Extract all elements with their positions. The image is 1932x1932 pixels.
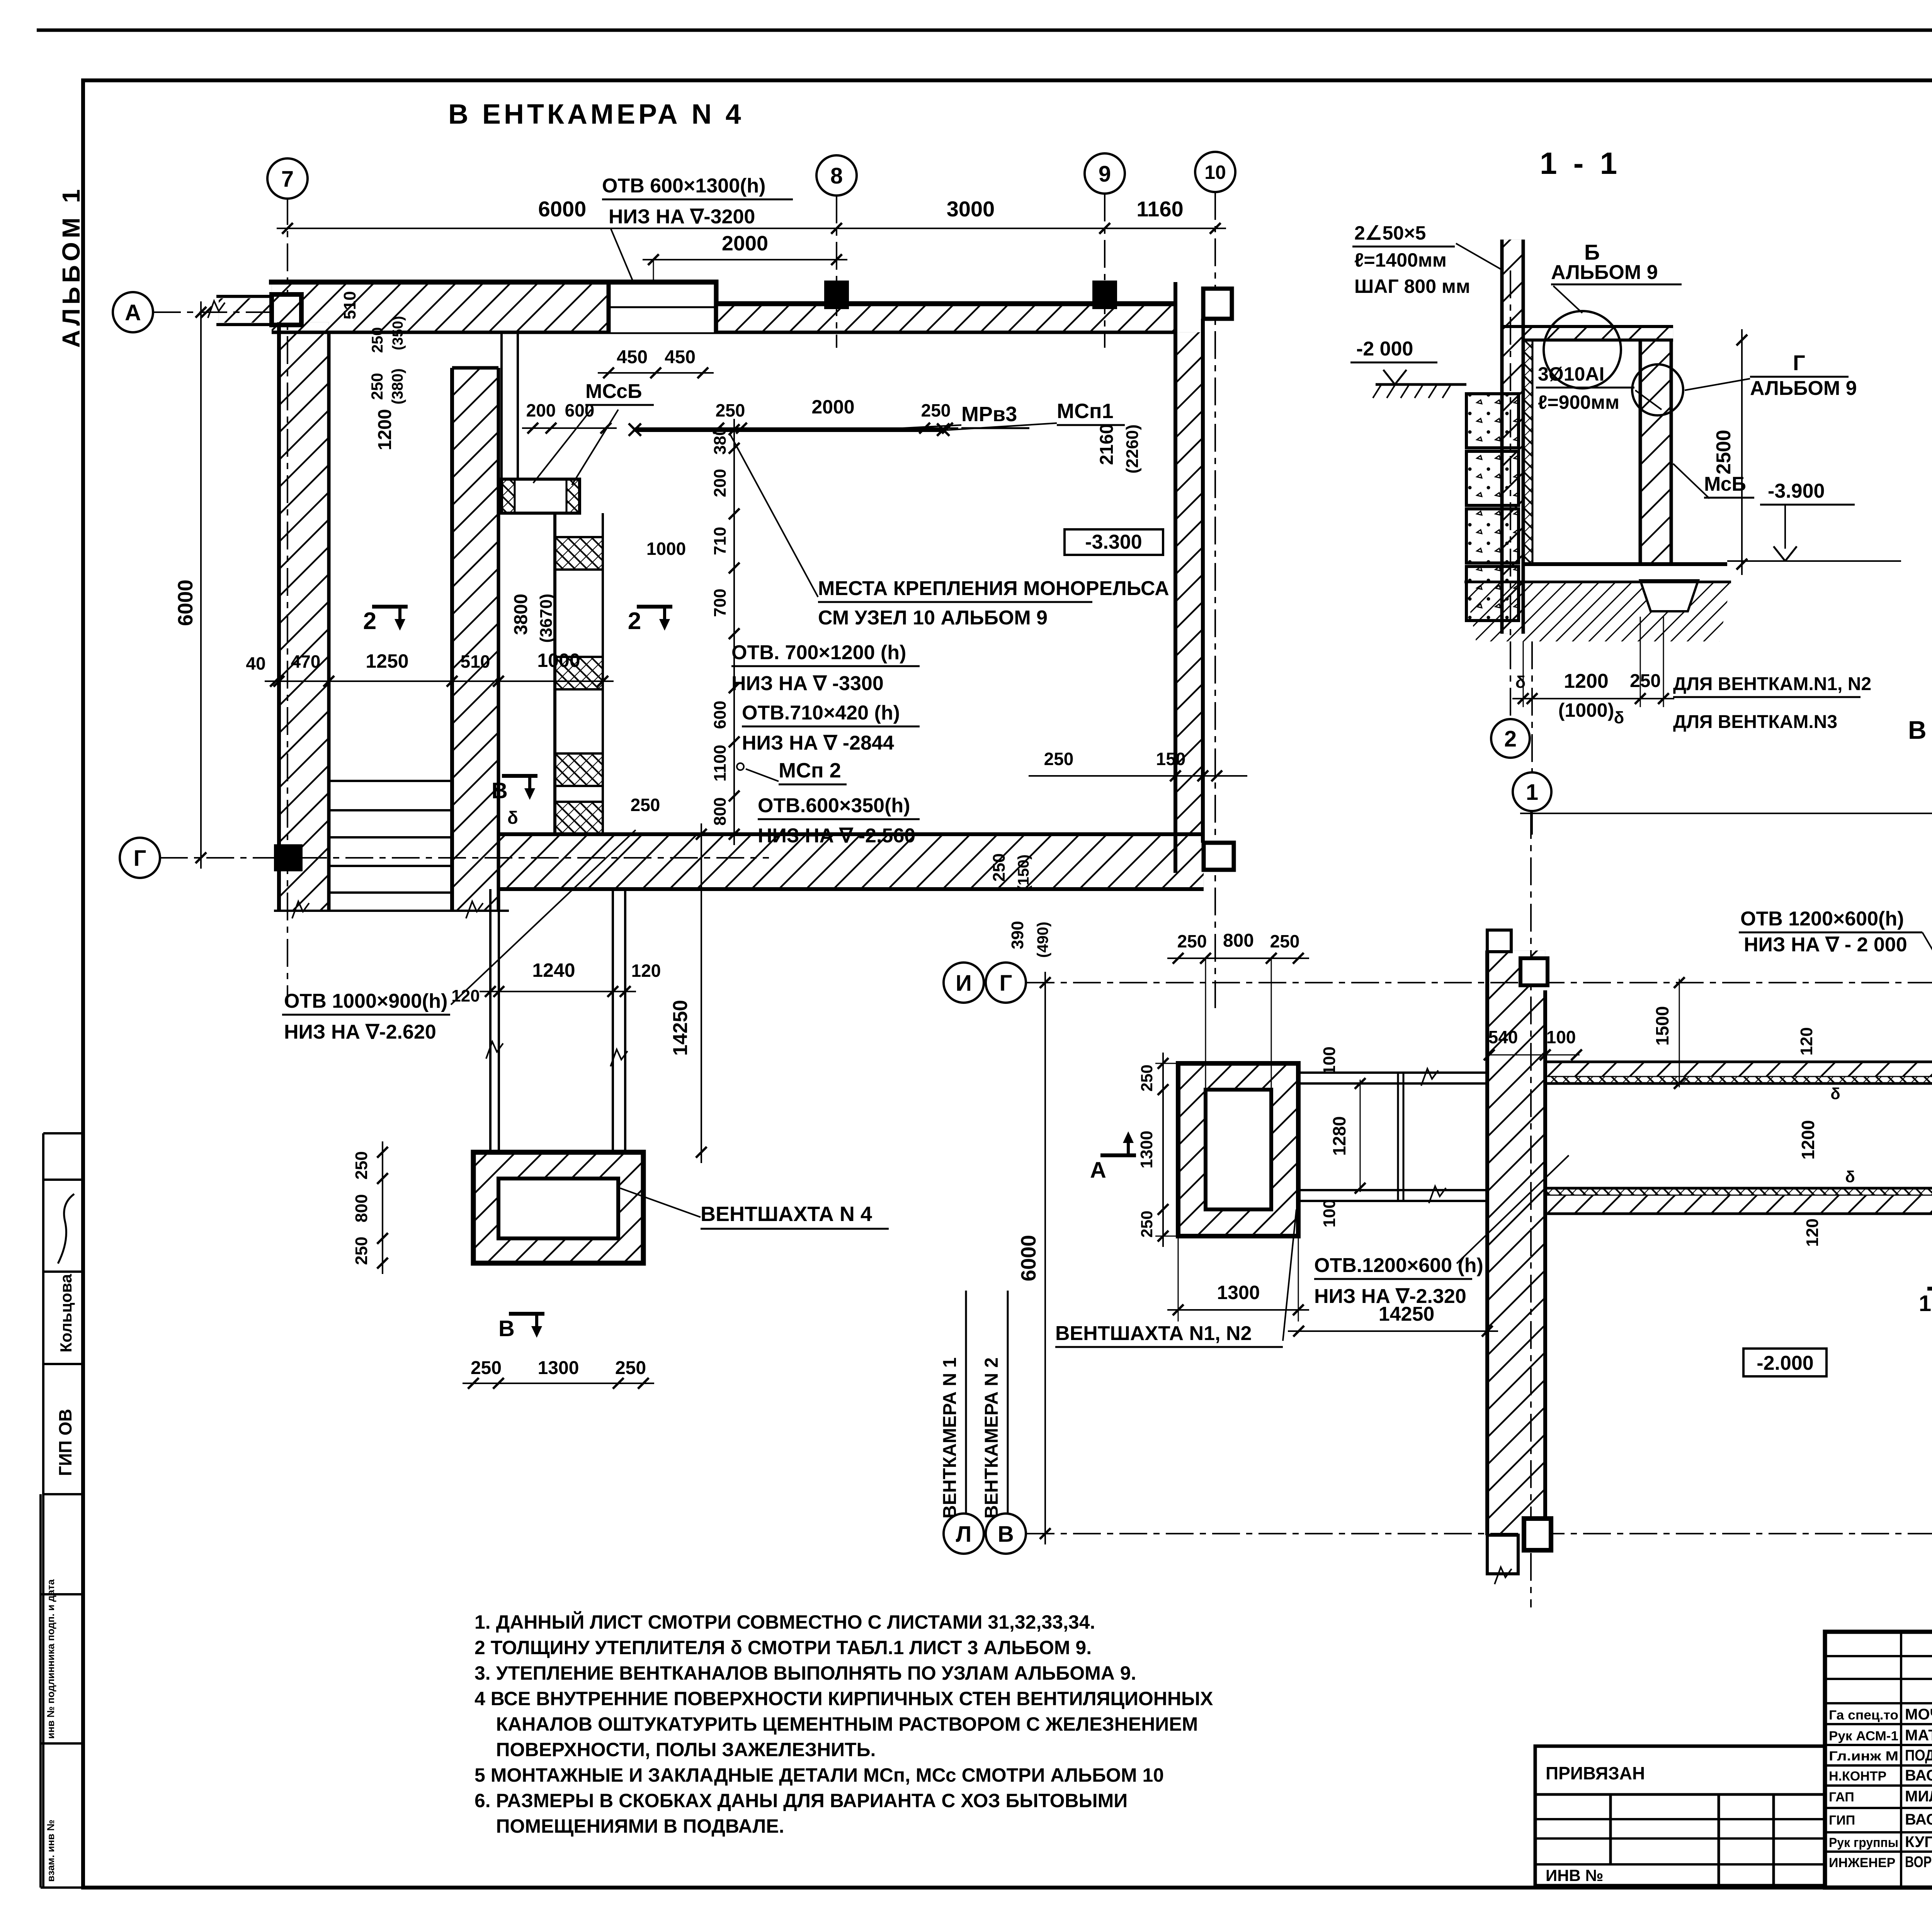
svg-text:-3.900: -3.900	[1768, 480, 1825, 502]
svg-text:700: 700	[711, 588, 730, 617]
bottom wall band of plan N4	[498, 834, 1204, 889]
stamp signature	[58, 1194, 74, 1264]
stub wall at axis 7 left	[216, 295, 274, 298]
svg-text:250: 250	[1138, 1065, 1156, 1092]
svg-text:ОТВ.600×350(h): ОТВ.600×350(h)	[758, 794, 910, 817]
sec1 ground hatch	[1464, 582, 1731, 641]
inner duct chamber near MSsB	[502, 479, 580, 513]
duct strip lower to chamber	[1545, 1195, 1932, 1214]
sec1 vertical dim 2500	[1741, 329, 1743, 575]
svg-text:ГИП: ГИП	[1829, 1813, 1855, 1828]
sec1 ceiling slab	[1523, 327, 1673, 340]
central wall top stub	[1487, 930, 1511, 952]
column at axis 9	[1092, 281, 1117, 309]
svg-text:НИЗ НА ∇ -3300: НИЗ НА ∇ -3300	[731, 672, 884, 695]
central wall	[1487, 951, 1545, 1535]
bubble G2	[986, 963, 1026, 1003]
svg-text:МЕСТА КРЕПЛЕНИЯ МОНОРЕЛЬСА: МЕСТА КРЕПЛЕНИЯ МОНОРЕЛЬСА	[818, 577, 1169, 600]
svg-text:510: 510	[340, 291, 359, 319]
sec1 foundation blocks	[1466, 394, 1519, 448]
svg-text:2: 2	[363, 608, 376, 634]
axis bubble 7	[267, 158, 308, 199]
svg-text:(380): (380)	[389, 368, 406, 404]
top dimension line 6000 3000 1160	[277, 228, 1226, 229]
svg-text:800: 800	[1223, 930, 1254, 951]
svg-text:МОЧАЛОВ: МОЧАЛОВ	[1905, 1706, 1932, 1723]
svg-text:470: 470	[291, 651, 321, 672]
stair inner wall	[452, 368, 498, 911]
svg-text:250: 250	[1270, 931, 1300, 951]
sec1 axis dash lines	[1510, 270, 1511, 719]
dim 12000	[1520, 813, 1932, 814]
sec1 chamber left lining	[1523, 340, 1532, 564]
svg-text:ОТВ.1200×600 (h): ОТВ.1200×600 (h)	[1314, 1254, 1483, 1277]
svg-text:450: 450	[617, 347, 648, 367]
svg-text:δ: δ	[1515, 673, 1526, 692]
svg-text:В: В	[498, 1316, 515, 1341]
title block vertical dividers	[1900, 1632, 1902, 1888]
svg-text:4 ВСЕ ВНУТРЕННИЕ ПОВЕРХНОСТИ: 4 ВСЕ ВНУТРЕННИЕ ПОВЕРХНОСТИ КИРПИЧНЫХ С…	[474, 1688, 1213, 1709]
svg-text:ОТВ. 700×1200 (h): ОТВ. 700×1200 (h)	[731, 641, 906, 664]
svg-text:Г: Г	[134, 846, 146, 871]
title block left rows	[1825, 1655, 1932, 1657]
svg-text:120: 120	[1803, 1218, 1822, 1247]
sec1 building wall	[1502, 240, 1523, 634]
svg-text:КАНАЛОВ ОШТУКАТУРИТЬ ЦЕМЕНТНЫ: КАНАЛОВ ОШТУКАТУРИТЬ ЦЕМЕНТНЫМ РАСТВОРОМ…	[474, 1713, 1198, 1735]
svg-text:ДЛЯ ВЕНТКАМ.N3: ДЛЯ ВЕНТКАМ.N3	[1673, 712, 1837, 732]
stair outer wall	[279, 322, 329, 911]
axis L-V line	[1027, 1533, 1932, 1534]
svg-text:1200: 1200	[1798, 1120, 1818, 1160]
axis bubble 8	[816, 155, 857, 196]
svg-text:НИЗ НА ∇-2.620: НИЗ НА ∇-2.620	[284, 1021, 436, 1043]
sec1 bubble 1	[1513, 772, 1551, 811]
svg-text:250: 250	[990, 853, 1009, 881]
svg-text:МРв3: МРв3	[961, 403, 1017, 426]
vent shaft N4	[473, 1152, 643, 1263]
svg-text:АЛЬБОМ 1: АЛЬБОМ 1	[57, 185, 85, 348]
sec1 pit under chamber	[1640, 580, 1698, 611]
svg-text:250: 250	[352, 1151, 371, 1179]
svg-text:ℓ=1400мм: ℓ=1400мм	[1354, 249, 1447, 271]
svg-text:1000: 1000	[646, 539, 686, 559]
axis 10 line	[1214, 192, 1216, 1012]
dimension 450 450	[598, 372, 714, 374]
svg-text:ОТВ 1000×900(h): ОТВ 1000×900(h)	[284, 990, 447, 1012]
svg-text:800: 800	[352, 1194, 371, 1222]
svg-text:1300: 1300	[1137, 1131, 1156, 1168]
monorail fixing line	[635, 427, 943, 432]
svg-text:ВАСИНА: ВАСИНА	[1905, 1811, 1932, 1828]
svg-text:250: 250	[921, 400, 951, 420]
section mark 1 left	[1927, 1287, 1932, 1291]
shaft N4 left dims	[382, 1141, 383, 1274]
vent shaft N1 N2	[1178, 1063, 1298, 1236]
svg-text:380: 380	[711, 426, 730, 454]
axis 1 line	[1530, 811, 1532, 1607]
svg-text:(150): (150)	[1015, 854, 1032, 890]
left vertical dim 6000	[200, 301, 202, 869]
level box -3.300	[1065, 529, 1163, 555]
svg-text:2000: 2000	[722, 232, 768, 255]
section mark 2 upper	[372, 605, 408, 609]
column at axis 8	[824, 281, 849, 309]
svg-text:1240: 1240	[532, 959, 575, 981]
svg-text:МАТОЯН: МАТОЯН	[1905, 1727, 1932, 1744]
svg-text:600: 600	[711, 701, 730, 729]
svg-text:НИЗ НА ∇ -2.560: НИЗ НА ∇ -2.560	[758, 825, 915, 847]
svg-text:Кольцова: Кольцова	[57, 1274, 75, 1352]
svg-text:НИЗ НА ∇ -2844: НИЗ НА ∇ -2844	[742, 732, 894, 754]
svg-text:ШАГ 800 мм: ШАГ 800 мм	[1354, 276, 1470, 297]
duct strip upper to chamber	[1545, 1062, 1932, 1077]
labels rotated on ducts	[1679, 979, 1680, 1087]
svg-text:2500: 2500	[1713, 430, 1735, 474]
section mark 2 lower	[637, 605, 672, 609]
inner wall vertical with blocks	[553, 513, 556, 834]
svg-text:1300: 1300	[538, 1358, 579, 1378]
axis 9 line	[1104, 194, 1105, 348]
svg-text:Г: Г	[1793, 350, 1805, 375]
sheet top edge line	[37, 29, 1932, 32]
svg-text:14250: 14250	[669, 1000, 692, 1056]
svg-text:6000: 6000	[538, 197, 587, 221]
svg-text:δ: δ	[1845, 1168, 1855, 1186]
svg-text:-2 000: -2 000	[1356, 338, 1413, 360]
svg-text:ВОРОТНИКОВА: ВОРОТНИКОВА	[1905, 1854, 1932, 1871]
svg-text:СМ УЗЕЛ 10 АЛЬБОМ 9: СМ УЗЕЛ 10 АЛЬБОМ 9	[818, 607, 1048, 629]
dims 250 150 right wall	[1029, 775, 1247, 777]
inner vertical dim stack	[733, 419, 735, 845]
svg-text:510: 510	[461, 651, 490, 672]
axis bubble 10	[1195, 152, 1235, 192]
shaft left dims 250 1300 250	[1162, 1053, 1164, 1247]
bubble L	[944, 1514, 984, 1554]
opening 450x450 in top wall	[609, 282, 716, 332]
svg-text:390: 390	[1008, 921, 1027, 949]
svg-text:6. РАЗМЕРЫ В СКОБКАХ ДАНЫ Д: 6. РАЗМЕРЫ В СКОБКАХ ДАНЫ ДЛЯ ВАРИАНТА С…	[474, 1790, 1128, 1811]
svg-text:10: 10	[1204, 162, 1226, 183]
svg-text:1. ДАННЫЙ ЛИСТ СМОТРИ СОВМЕСТН: 1. ДАННЫЙ ЛИСТ СМОТРИ СОВМЕСТНО С ЛИСТАМ…	[474, 1611, 1095, 1633]
svg-text:1: 1	[1919, 1291, 1931, 1316]
opening jambs in duct	[1397, 1073, 1399, 1201]
svg-text:250: 250	[1177, 931, 1207, 951]
svg-text:δ: δ	[1830, 1085, 1840, 1103]
svg-text:ВЕНТШАХТА N1, N2: ВЕНТШАХТА N1, N2	[1055, 1322, 1252, 1345]
axis bubble A	[113, 292, 153, 332]
svg-text:(490): (490)	[1034, 922, 1051, 957]
svg-text:2: 2	[1504, 726, 1517, 752]
svg-text:-2.000: -2.000	[1757, 1352, 1813, 1374]
pier at axis1 top	[1520, 958, 1548, 985]
axis 7 line	[287, 197, 288, 1005]
sec1 chamber right wall	[1640, 340, 1671, 564]
leader otv1000	[451, 830, 636, 1005]
axis 8 line	[836, 196, 837, 348]
svg-text:инв № подлинника подп. и дата: инв № подлинника подп. и дата	[45, 1579, 56, 1739]
section mark B upper	[502, 774, 537, 778]
column 7/A	[272, 294, 301, 325]
svg-text:200: 200	[711, 469, 730, 497]
svg-text:1280: 1280	[1329, 1116, 1349, 1156]
sec1 callout circle B	[1544, 311, 1621, 388]
svg-text:3800: 3800	[511, 594, 531, 635]
svg-text:Рук группы: Рук группы	[1829, 1835, 1898, 1850]
svg-text:120: 120	[631, 961, 661, 981]
sec1 bottom dims	[1512, 698, 1674, 699]
svg-text:Б: Б	[1584, 240, 1600, 264]
svg-text:14250: 14250	[1379, 1303, 1435, 1325]
dimension 2000 to axis 8	[643, 259, 847, 260]
svg-text:250: 250	[716, 400, 745, 420]
svg-text:МСп 2: МСп 2	[779, 759, 841, 782]
dim 14250 bottom plan	[1288, 1330, 1498, 1332]
svg-text:ИНВ №: ИНВ №	[1546, 1866, 1603, 1884]
svg-text:ИНЖЕНЕР: ИНЖЕНЕР	[1829, 1855, 1895, 1870]
svg-text:ПРИВЯЗАН: ПРИВЯЗАН	[1546, 1763, 1645, 1783]
svg-text:250: 250	[1630, 671, 1661, 691]
svg-text:150: 150	[1156, 749, 1186, 769]
svg-text:(3670): (3670)	[537, 594, 556, 643]
svg-text:250: 250	[352, 1236, 371, 1265]
sec1 bubble 2	[1491, 719, 1530, 758]
svg-text:ПОМЕЩЕНИЯМИ В ПОДВАЛЕ.: ПОМЕЩЕНИЯМИ В ПОДВАЛЕ.	[474, 1815, 784, 1837]
svg-text:В: В	[492, 778, 508, 803]
svg-text:7: 7	[281, 167, 294, 192]
svg-text:Гл.инж М: Гл.инж М	[1829, 1749, 1898, 1764]
svg-text:2 ТОЛЩИНУ УТЕПЛИТЕЛЯ δ СМОТР: 2 ТОЛЩИНУ УТЕПЛИТЕЛЯ δ СМОТРИ ТАБЛ.1 ЛИС…	[474, 1637, 1092, 1658]
shaft bottom dim 1300	[1167, 1309, 1309, 1311]
svg-text:ОТВ 1200×600(h): ОТВ 1200×600(h)	[1740, 908, 1904, 930]
axis I-G line	[1027, 982, 1932, 983]
svg-text:ГАП: ГАП	[1829, 1790, 1854, 1804]
svg-text:Л: Л	[956, 1522, 972, 1547]
svg-text:(1000): (1000)	[1558, 699, 1614, 721]
dims 200 600	[522, 427, 617, 429]
column 7/G	[274, 844, 303, 871]
svg-text:1160: 1160	[1136, 197, 1184, 221]
svg-text:В ЕНТКАМЕРА N 4: В ЕНТКАМЕРА N 4	[448, 99, 744, 130]
duct lines to shaft N4	[489, 889, 492, 1152]
svg-text:2160: 2160	[1097, 424, 1117, 465]
svg-text:710: 710	[711, 527, 730, 555]
section mark B lower	[509, 1312, 544, 1316]
svg-text:1100: 1100	[711, 745, 730, 781]
svg-text:НИЗ НА ∇ - 2 000: НИЗ НА ∇ - 2 000	[1744, 934, 1907, 956]
right wall band	[1175, 332, 1203, 834]
svg-text:1500: 1500	[1652, 1006, 1672, 1046]
pier at axis 10 bottom	[1204, 843, 1234, 870]
svg-text:100: 100	[1546, 1027, 1576, 1047]
svg-text:АЛЬБОМ 9: АЛЬБОМ 9	[1750, 377, 1857, 400]
svg-text:ВЕНТШАХТА N 4: ВЕНТШАХТА N 4	[701, 1202, 872, 1226]
svg-text:2: 2	[628, 608, 641, 634]
svg-text:120: 120	[1797, 1027, 1816, 1055]
svg-text:В: В	[998, 1522, 1014, 1547]
svg-text:ПОДОЛЬСКИЙ: ПОДОЛЬСКИЙ	[1905, 1746, 1932, 1764]
dims 250 2000 250	[708, 427, 958, 429]
svg-text:200: 200	[526, 400, 556, 420]
svg-text:δ: δ	[1614, 708, 1624, 727]
svg-text:ПОВЕРХНОСТИ, ПОЛЫ ЗАЖЕЛЕЗНИТЬ: ПОВЕРХНОСТИ, ПОЛЫ ЗАЖЕЛЕЗНИТЬ.	[474, 1739, 876, 1760]
svg-text:КУПЦОВ: КУПЦОВ	[1905, 1833, 1932, 1850]
svg-text:2∠50×5: 2∠50×5	[1354, 222, 1426, 244]
shaft N4 bottom dims	[463, 1383, 654, 1384]
svg-text:Га спец.то: Га спец.то	[1829, 1708, 1898, 1723]
svg-text:ОТВ.710×420 (h): ОТВ.710×420 (h)	[742, 702, 900, 724]
svg-text:6000: 6000	[1017, 1235, 1040, 1281]
svg-text:ВЕНТКАМЕРА N 2: ВЕНТКАМЕРА N 2	[981, 1357, 1002, 1519]
svg-text:-3.300: -3.300	[1085, 531, 1142, 553]
svg-text:Г: Г	[1000, 971, 1012, 996]
level box -2.000 plan	[1743, 1349, 1827, 1376]
svg-text:600: 600	[565, 400, 595, 420]
section mark A left	[1100, 1153, 1136, 1157]
svg-text:МИЛЕШИН: МИЛЕШИН	[1905, 1788, 1932, 1805]
duct lines above MSsB chamber	[500, 332, 503, 479]
svg-text:250: 250	[368, 373, 386, 400]
svg-text:250: 250	[471, 1358, 502, 1378]
svg-text:5 МОНТАЖНЫЕ И ЗАКЛАДНЫЕ ДЕТ: 5 МОНТАЖНЫЕ И ЗАКЛАДНЫЕ ДЕТАЛИ МСп, МСс …	[474, 1764, 1164, 1786]
svg-text:И: И	[956, 971, 972, 996]
svg-text:250: 250	[1044, 749, 1074, 769]
svg-text:250: 250	[631, 795, 660, 815]
svg-text:450: 450	[665, 347, 696, 367]
svg-text:НИЗ НА ∇-3200: НИЗ НА ∇-3200	[609, 206, 755, 228]
svg-text:6000: 6000	[174, 580, 197, 626]
axis A line	[153, 311, 286, 313]
stair wall cut line	[274, 910, 509, 912]
svg-text:3000: 3000	[947, 197, 995, 221]
svg-text:(2260): (2260)	[1123, 424, 1142, 473]
svg-text:ОТВ 600×1300(h): ОТВ 600×1300(h)	[602, 175, 765, 197]
privyazan table	[1535, 1746, 1825, 1886]
svg-text:АЛЬБОМ 9: АЛЬБОМ 9	[1551, 261, 1658, 284]
svg-text:Рук АСМ-1: Рук АСМ-1	[1829, 1729, 1898, 1743]
leader to opening	[611, 228, 654, 331]
svg-text:1300: 1300	[1217, 1282, 1260, 1303]
vertical dim 14250	[701, 823, 702, 1163]
svg-text:9: 9	[1099, 162, 1111, 187]
bubble V	[986, 1514, 1026, 1554]
svg-text:250: 250	[1138, 1211, 1156, 1238]
svg-text:А: А	[1090, 1158, 1106, 1183]
svg-text:взам. инв №: взам. инв №	[45, 1820, 56, 1882]
svg-text:100: 100	[1320, 1199, 1339, 1227]
svg-text:ВЕНТКАМЕРА N 1: ВЕНТКАМЕРА N 1	[940, 1357, 960, 1519]
central wall below L-V	[1487, 1535, 1518, 1574]
bubble I	[944, 963, 984, 1003]
axis G line	[160, 857, 769, 859]
pier at axis1 bottom	[1524, 1519, 1551, 1550]
axis bubble G	[120, 838, 160, 878]
left stamp boxes column	[42, 1133, 44, 1888]
svg-text:1200: 1200	[1564, 670, 1609, 692]
svg-text:2000: 2000	[811, 396, 854, 418]
svg-text:1250: 1250	[366, 650, 408, 672]
svg-text:540: 540	[1488, 1027, 1518, 1047]
duct lines upper	[1298, 1071, 1489, 1074]
svg-text:ℓ=900мм: ℓ=900мм	[1538, 391, 1619, 413]
svg-text:А: А	[125, 300, 141, 325]
svg-text:1: 1	[1526, 780, 1538, 805]
svg-text:Н.КОНТР: Н.КОНТР	[1829, 1769, 1886, 1784]
svg-text:40: 40	[246, 653, 265, 673]
svg-text:800: 800	[711, 797, 730, 825]
svg-text:1200: 1200	[375, 409, 395, 451]
svg-text:МСсБ: МСсБ	[585, 380, 642, 403]
svg-text:δ: δ	[507, 808, 518, 828]
pier at axis 10	[1203, 289, 1232, 319]
top wall band left	[272, 282, 716, 332]
svg-text:МсБ: МсБ	[1704, 473, 1746, 495]
top wall band right	[716, 304, 1175, 331]
sec1 ground level line	[1376, 383, 1466, 386]
svg-text:3. УТЕПЛЕНИЕ ВЕНТКАНАЛОВ ВЫП: 3. УТЕПЛЕНИЕ ВЕНТКАНАЛОВ ВЫПОЛНЯТЬ ПО УЗ…	[474, 1662, 1136, 1684]
svg-text:1 - 1: 1 - 1	[1540, 146, 1621, 180]
svg-text:ГИП ОВ: ГИП ОВ	[55, 1409, 75, 1476]
svg-text:МСп1: МСп1	[1057, 400, 1114, 423]
svg-text:3Ø10АI: 3Ø10АI	[1538, 363, 1604, 385]
svg-text:120: 120	[451, 986, 480, 1005]
svg-text:ДЛЯ ВЕНТКАМ.N1, N2: ДЛЯ ВЕНТКАМ.N1, N2	[1673, 674, 1871, 694]
left dims row 40 470 1250 510 1000	[265, 680, 614, 682]
title block outer box	[1825, 1632, 1932, 1888]
svg-text:В ЕНТКАМЕРЫ N 1 , N 2: В ЕНТКАМЕРЫ N 1 , N 2	[1908, 716, 1932, 744]
svg-text:(350): (350)	[390, 316, 406, 350]
axis bubble 9	[1085, 153, 1125, 194]
svg-text:250: 250	[615, 1358, 646, 1378]
svg-text:100: 100	[1320, 1046, 1339, 1075]
duct lines lower	[1298, 1189, 1489, 1191]
stair treads	[329, 780, 452, 782]
left vertical dim 6000 bottom plan	[1044, 972, 1046, 1544]
shaft top dims 250 800 250	[1167, 957, 1309, 959]
svg-text:8: 8	[830, 163, 843, 189]
svg-text:250: 250	[369, 327, 386, 353]
svg-text:ВАСИНА: ВАСИНА	[1905, 1767, 1932, 1784]
sec1 floor line	[1523, 562, 1727, 566]
